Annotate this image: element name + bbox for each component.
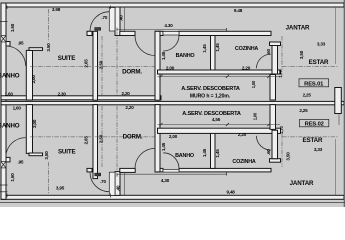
top unit bottom wall over suite+dorm bbox=[1, 96, 161, 100]
top banho1 wall (suite/banho divider) bbox=[26, 50, 32, 100]
svg-text:.70: .70 bbox=[101, 15, 107, 20]
svg-text:2,30: 2,30 bbox=[58, 91, 67, 96]
top banho2 door leaf bbox=[163, 32, 179, 35]
svg-text:2,00: 2,00 bbox=[32, 119, 37, 128]
svg-text:BANHO: BANHO bbox=[175, 153, 194, 159]
left exterior wall bbox=[1, 3, 6, 199]
top banho2/cozinha wall bbox=[211, 36, 216, 71]
svg-text:1,00: 1,00 bbox=[253, 112, 258, 120]
top dorm door arc bbox=[135, 36, 155, 56]
dashed line estar bottom horizontal bbox=[282, 136, 338, 138]
top dorm right wall bbox=[155, 31, 160, 100]
svg-text:BANHO: BANHO bbox=[0, 73, 20, 80]
svg-text:2,00: 2,00 bbox=[166, 65, 175, 70]
bottom exterior wall bbox=[1, 195, 344, 199]
bottom interior wall segment B bbox=[120, 168, 135, 172]
centerline suite horizontal bottom bbox=[30, 136, 155, 138]
bottom aserv right wall bbox=[270, 105, 276, 130]
bottom cozinha door arc bbox=[256, 136, 271, 150]
svg-text:ESTAR: ESTAR bbox=[309, 59, 329, 66]
svg-text:2,65: 2,65 bbox=[83, 136, 88, 145]
svg-text:1,60: 1,60 bbox=[13, 106, 22, 111]
svg-text:BANHO: BANHO bbox=[0, 123, 20, 130]
top left window (hatched) bbox=[1, 36, 6, 43]
svg-text:4.30: 4.30 bbox=[164, 23, 173, 28]
svg-text:MURO h = 1,20m.: MURO h = 1,20m. bbox=[190, 93, 231, 99]
svg-text:3,33: 3,33 bbox=[317, 41, 326, 46]
bottom cozinha right wall bbox=[272, 130, 278, 159]
svg-text:2,25: 2,25 bbox=[299, 108, 308, 113]
dim ticks 1.00 line bottom bbox=[159, 123, 270, 126]
dim tick left wall 1.50 bottom bbox=[0, 184, 8, 186]
bottom suite door leaf bbox=[109, 172, 115, 195]
1.00 dim line top bbox=[158, 75, 281, 77]
window line right bottom bbox=[335, 139, 337, 195]
svg-text:DORM.: DORM. bbox=[122, 69, 142, 76]
svg-text:1,45: 1,45 bbox=[215, 149, 220, 158]
dashed line estar bottom vertical bbox=[281, 133, 283, 167]
top interior wall segment C bbox=[155, 31, 163, 35]
svg-text:.95: .95 bbox=[18, 159, 24, 164]
dim ticks 1.00 line top bbox=[159, 75, 270, 78]
RES.02 box bbox=[300, 119, 329, 126]
svg-text:3.50: 3.50 bbox=[46, 43, 51, 52]
svg-text:DORM.: DORM. bbox=[123, 134, 143, 141]
4.30 dim line top bbox=[117, 29, 227, 31]
svg-text:ESTAR: ESTAR bbox=[303, 137, 323, 144]
svg-text:2,20: 2,20 bbox=[122, 91, 131, 96]
svg-text:3.98: 3.98 bbox=[52, 7, 61, 12]
svg-text:2,20: 2,20 bbox=[125, 105, 134, 110]
svg-text:1.50: 1.50 bbox=[10, 23, 15, 32]
dashed projection suite wall bottom bbox=[116, 106, 118, 171]
centerline dorm top bbox=[101, 36, 103, 95]
bottom interior wall segment A bbox=[87, 168, 92, 172]
dashed line estar top horizontal bbox=[282, 66, 338, 68]
svg-text:2,20: 2,20 bbox=[238, 132, 247, 137]
svg-text:2,65: 2,65 bbox=[83, 59, 88, 68]
svg-text:1,45: 1,45 bbox=[215, 43, 220, 52]
bottom dorm left wall bbox=[93, 105, 98, 179]
top suite door arc bbox=[90, 12, 109, 31]
svg-text:JANTAR: JANTAR bbox=[290, 180, 314, 187]
svg-text:3,95: 3,95 bbox=[56, 185, 65, 190]
dim ticks 4.30 line top bbox=[117, 28, 227, 32]
svg-text:1,45: 1,45 bbox=[202, 148, 207, 157]
bottom suite door stop bbox=[95, 173, 101, 176]
dashed projection suite wall top bbox=[116, 32, 118, 95]
svg-text:9.48: 9.48 bbox=[234, 8, 243, 13]
svg-text:RES.02: RES.02 bbox=[305, 122, 324, 128]
svg-text:1,00: 1,00 bbox=[251, 80, 256, 88]
centerline suite vertical top bbox=[47, 9, 49, 41]
nook line bottom bbox=[123, 172, 125, 195]
bottom dorm right wall bbox=[155, 105, 160, 172]
top interior wall segment D (banho2+cozinha) bbox=[179, 31, 271, 35]
svg-text:2,25: 2,25 bbox=[303, 93, 312, 98]
1.00 dim line bottom bbox=[158, 124, 281, 126]
right border line bbox=[343, 0, 345, 207]
svg-text:1,45: 1,45 bbox=[161, 51, 166, 60]
svg-text:.60: .60 bbox=[266, 149, 271, 155]
svg-text:SUITE: SUITE bbox=[58, 148, 75, 155]
svg-text:2,50: 2,50 bbox=[99, 134, 104, 143]
top cozinha right wall bbox=[272, 46, 278, 75]
svg-text:2,00: 2,00 bbox=[169, 134, 178, 139]
dim tick left wall lower bbox=[0, 191, 8, 193]
bottom interior wall segment C bbox=[155, 168, 163, 172]
svg-text:1,45: 1,45 bbox=[161, 142, 166, 151]
top suite right wall (vestibule) bbox=[115, 7, 120, 36]
bottom shaft cap next to cozinha bbox=[270, 159, 281, 163]
centerline suite horizontal top bbox=[30, 66, 155, 68]
pier lower line bbox=[338, 114, 340, 126]
top aserv right wall bbox=[270, 75, 276, 101]
svg-text:A.SERV. DESCOBERTA: A.SERV. DESCOBERTA bbox=[181, 86, 240, 92]
svg-text:RES.01: RES.01 bbox=[304, 82, 324, 88]
svg-text:BANHO: BANHO bbox=[176, 53, 195, 59]
svg-text:4,55: 4,55 bbox=[212, 117, 221, 122]
svg-text:1,45: 1,45 bbox=[202, 44, 207, 53]
svg-text:COZINHA: COZINHA bbox=[235, 46, 258, 52]
bottom banho2/cozinha wall bbox=[211, 133, 216, 168]
bottom banho2 door leaf bbox=[163, 169, 179, 172]
bottom banho2 door arc bbox=[163, 153, 179, 169]
top banho2 door arc bbox=[163, 35, 179, 51]
bottom interior wall segment D (banho2+cozinha) bbox=[179, 168, 271, 172]
top dorm left wall bbox=[93, 31, 98, 100]
bottom left window (hatched) bbox=[1, 161, 6, 168]
nook line top bbox=[123, 7, 125, 31]
svg-text:1,50: 1,50 bbox=[10, 173, 15, 182]
bottom banho1 door return stub bbox=[29, 153, 43, 156]
bottom suite right wall (vestibule) bbox=[115, 172, 120, 196]
centerline suite vertical bottom bbox=[47, 162, 49, 194]
top interior wall segment A bbox=[87, 31, 92, 35]
dim ticks 4.30 line bottom bbox=[117, 172, 227, 177]
svg-text:1,70: 1,70 bbox=[278, 69, 283, 77]
bottom banho1 door stub bbox=[6, 157, 10, 162]
svg-text:9,48: 9,48 bbox=[227, 189, 236, 194]
dim tick top wall 3.98 left bbox=[6, 6, 8, 10]
svg-text:.95: .95 bbox=[18, 41, 24, 46]
central dividing wall (muro) bbox=[1, 101, 344, 104]
top banho1 door stub bbox=[6, 42, 10, 47]
dim tick left wall 1.50 top bbox=[0, 21, 8, 23]
bottom border line bbox=[0, 202, 345, 204]
svg-text:.40: .40 bbox=[116, 185, 121, 191]
svg-text:3,50: 3,50 bbox=[44, 151, 49, 160]
svg-text:JANTAR: JANTAR bbox=[286, 25, 310, 32]
bottom banho1 wall bbox=[26, 105, 32, 154]
svg-text:1,70: 1,70 bbox=[279, 125, 284, 133]
top banho1 door arc bbox=[6, 46, 26, 66]
dim tick bottom wall 3.95 right bbox=[110, 194, 112, 198]
top interior wall segment B bbox=[120, 31, 135, 35]
svg-text:2,00: 2,00 bbox=[31, 75, 36, 84]
bottom suite door arc bbox=[90, 172, 109, 191]
svg-text:3,33: 3,33 bbox=[314, 147, 323, 152]
dim tick bottom wall 3.95 left bbox=[6, 194, 8, 198]
svg-text:.60: .60 bbox=[266, 48, 271, 54]
svg-text:1,60: 1,60 bbox=[5, 92, 14, 97]
dashed line estar top vertical bbox=[281, 36, 283, 70]
window line right top bbox=[335, 7, 337, 64]
svg-text:.40: .40 bbox=[119, 15, 124, 21]
bottom banho2+cozinha top wall bbox=[158, 128, 281, 133]
top banho2+cozinha bottom wall bbox=[158, 70, 281, 74]
svg-text:4,30: 4,30 bbox=[161, 178, 170, 183]
centerline dorm bottom bbox=[101, 106, 103, 167]
top cozinha door arc bbox=[256, 54, 271, 68]
svg-text:2,50: 2,50 bbox=[99, 60, 104, 69]
svg-text:COZINHA: COZINHA bbox=[232, 159, 255, 165]
RES.01 box bbox=[299, 79, 329, 87]
bottom dorm door arc bbox=[135, 148, 155, 168]
svg-text:3,50: 3,50 bbox=[286, 152, 291, 161]
dim tick top wall 3.98 right bbox=[110, 6, 112, 10]
svg-text:2,20: 2,20 bbox=[242, 65, 251, 70]
top suite door leaf bbox=[109, 8, 115, 32]
svg-text:.70: .70 bbox=[100, 179, 106, 184]
top suite door stop bbox=[95, 28, 101, 31]
top shaft cap next to cozinha bbox=[270, 42, 281, 46]
right pier bbox=[335, 88, 342, 114]
4.30 dim line bottom bbox=[117, 173, 227, 175]
top banho1 door return stub bbox=[29, 48, 43, 51]
svg-text:SUITE: SUITE bbox=[58, 55, 75, 62]
bottom banho1 door arc bbox=[6, 138, 26, 158]
svg-text:3,50: 3,50 bbox=[299, 50, 304, 59]
top exterior wall bbox=[1, 3, 344, 7]
